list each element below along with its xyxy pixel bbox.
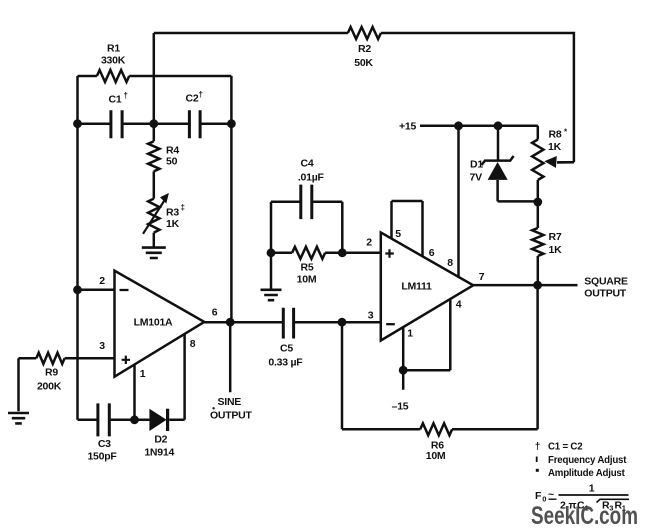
svg-text:0.33 µF: 0.33 µF	[268, 357, 303, 369]
svg-text:7: 7	[479, 271, 485, 283]
svg-text:D2: D2	[154, 433, 167, 445]
svg-text:6: 6	[212, 307, 218, 319]
svg-text:1: 1	[140, 368, 146, 380]
svg-text:330K: 330K	[101, 54, 126, 66]
svg-text:200K: 200K	[37, 380, 62, 392]
svg-text:C5: C5	[280, 343, 293, 355]
svg-text:+15: +15	[399, 121, 416, 133]
svg-text:6: 6	[429, 247, 435, 259]
svg-text:LM111: LM111	[401, 280, 432, 292]
svg-text:1: 1	[407, 327, 413, 339]
svg-text:†: †	[535, 442, 540, 453]
svg-text:†: †	[124, 91, 128, 100]
svg-text:50: 50	[166, 155, 178, 167]
svg-text:2: 2	[366, 237, 372, 249]
svg-text:SQUARE: SQUARE	[584, 276, 628, 288]
svg-text:1N914: 1N914	[144, 447, 174, 459]
svg-text:.01µF: .01µF	[298, 172, 325, 184]
svg-text:R1: R1	[107, 43, 120, 55]
svg-text:1K: 1K	[548, 141, 562, 153]
svg-text:OUTPUT: OUTPUT	[584, 287, 627, 299]
svg-text:Frequency Adjust: Frequency Adjust	[548, 455, 627, 466]
svg-text:C4: C4	[301, 158, 314, 170]
svg-text:†: †	[199, 90, 203, 99]
svg-text:C2: C2	[186, 93, 199, 105]
svg-text:50K: 50K	[354, 57, 373, 69]
svg-text:OUTPUT: OUTPUT	[210, 410, 253, 422]
svg-text:F: F	[535, 490, 542, 502]
svg-text:SINE: SINE	[218, 396, 242, 408]
svg-text:R8: R8	[549, 129, 562, 141]
svg-text:4: 4	[456, 299, 462, 311]
svg-text:5: 5	[395, 228, 401, 240]
svg-text:1K: 1K	[166, 218, 180, 230]
svg-text:150pF: 150pF	[87, 451, 117, 463]
svg-text:8: 8	[190, 338, 196, 350]
svg-text:2: 2	[99, 275, 105, 287]
svg-text:10M: 10M	[426, 450, 446, 462]
svg-text:R5: R5	[301, 262, 314, 274]
svg-text:Amplitude Adjust: Amplitude Adjust	[548, 468, 626, 479]
svg-text:SeekIC.com: SeekIC.com	[531, 502, 638, 530]
svg-text:3: 3	[99, 340, 105, 352]
svg-text:R3: R3	[166, 207, 179, 219]
svg-text:–15: –15	[392, 401, 409, 413]
svg-text:D1: D1	[470, 158, 483, 170]
svg-text:R7: R7	[549, 231, 562, 243]
svg-text:R9: R9	[45, 367, 58, 379]
svg-text:7V: 7V	[470, 172, 483, 184]
svg-text:3: 3	[368, 310, 374, 322]
svg-text:LM101A: LM101A	[134, 317, 173, 329]
svg-text:1: 1	[589, 483, 595, 495]
svg-text:C1 = C2: C1 = C2	[548, 442, 582, 453]
svg-text:‡: ‡	[181, 203, 185, 212]
svg-text:8: 8	[447, 257, 453, 269]
svg-text:R2: R2	[358, 43, 371, 55]
svg-text:C1: C1	[109, 94, 122, 106]
svg-text:10M: 10M	[297, 274, 317, 286]
svg-text:1K: 1K	[549, 244, 563, 256]
svg-text:C3: C3	[98, 438, 111, 450]
